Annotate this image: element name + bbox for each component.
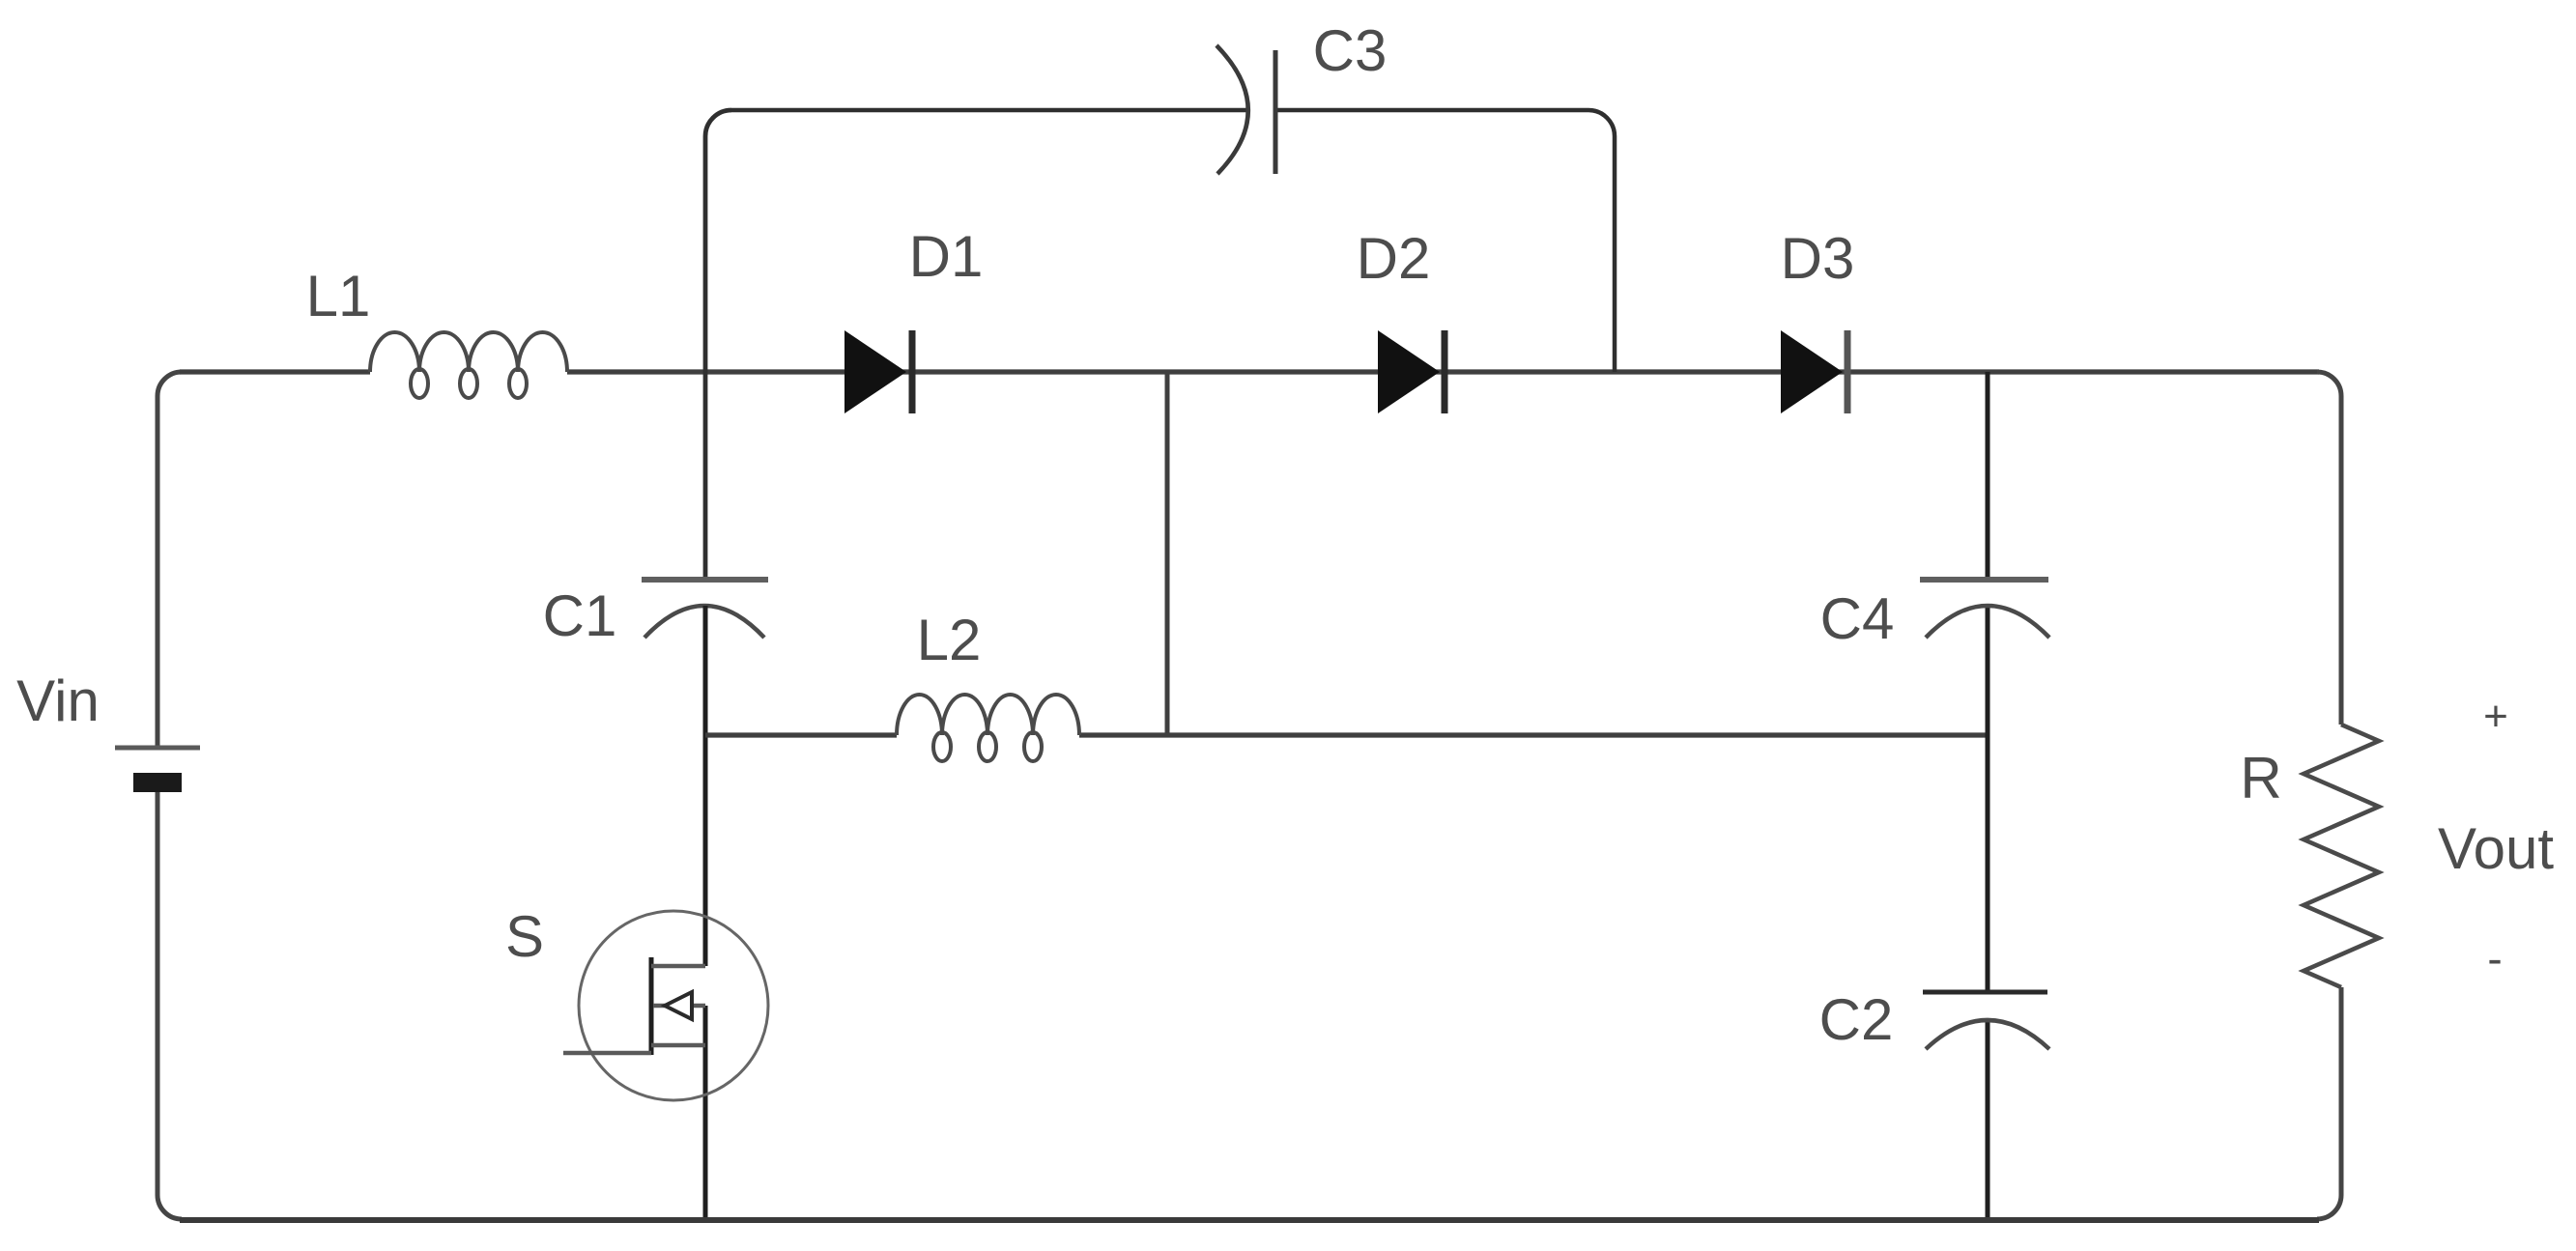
wire top right corner + right rail xyxy=(2317,372,2341,725)
wire mosfet source vertical down to bottom rail xyxy=(703,1006,708,1219)
svg-text:D3: D3 xyxy=(1781,226,1855,291)
svg-text:C4: C4 xyxy=(1820,586,1895,651)
transistor S source lead xyxy=(651,1043,705,1048)
transistor S drain lead xyxy=(651,964,705,969)
transistor S body arrow lead xyxy=(653,1004,705,1009)
capacitor C1 xyxy=(642,577,768,583)
svg-text:-: - xyxy=(2487,933,2502,983)
diode D1 xyxy=(844,330,906,413)
svg-text:Vout: Vout xyxy=(2438,816,2554,881)
wire top main rail y=385 xyxy=(180,369,370,374)
diode D2 xyxy=(1378,330,1440,413)
capacitor C3 xyxy=(1216,45,1248,174)
wire C3 loop right vertical x=1671 xyxy=(1589,110,1615,372)
wire L2 rail y=761 xyxy=(705,732,897,737)
wire left rail with rounded top/bottom corners xyxy=(157,372,182,746)
svg-text:R: R xyxy=(2240,746,2281,810)
svg-text:C2: C2 xyxy=(1819,987,1894,1052)
svg-text:S: S xyxy=(505,904,544,969)
wire bottom rail y=1262 xyxy=(180,1217,2319,1223)
svg-text:D1: D1 xyxy=(909,224,984,289)
diode D3 xyxy=(1781,330,1843,413)
wire center vertical x=730 (C1 to mosfet drain) xyxy=(703,606,708,966)
transistor S channel bar xyxy=(649,957,654,1055)
wire node vertical x=1208 (main rail to L2 rail) xyxy=(1165,372,1170,735)
svg-text:Vin: Vin xyxy=(16,668,100,733)
svg-text:C1: C1 xyxy=(543,583,617,648)
wire C3 loop left vertical x=730 xyxy=(705,110,731,580)
transistor S (MOSFET) circle xyxy=(579,911,768,1100)
resistor R xyxy=(2304,725,2379,987)
svg-text:+: + xyxy=(2483,693,2508,740)
svg-text:L2: L2 xyxy=(917,608,982,672)
inductor L1 xyxy=(370,332,567,398)
wire C3 loop top horizontal xyxy=(731,108,1246,113)
svg-text:D2: D2 xyxy=(1357,226,1431,291)
transistor S arrow head xyxy=(665,992,692,1019)
capacitor C2 xyxy=(1923,990,2047,995)
svg-text:C3: C3 xyxy=(1313,18,1388,83)
transistor S gate lead xyxy=(563,1051,651,1056)
battery Vin xyxy=(115,746,200,751)
capacitor C4 xyxy=(1920,577,2048,583)
svg-text:L1: L1 xyxy=(306,264,371,328)
wire C4 branch vertical x=2057 xyxy=(1986,372,1990,580)
inductor L2 xyxy=(897,695,1079,761)
